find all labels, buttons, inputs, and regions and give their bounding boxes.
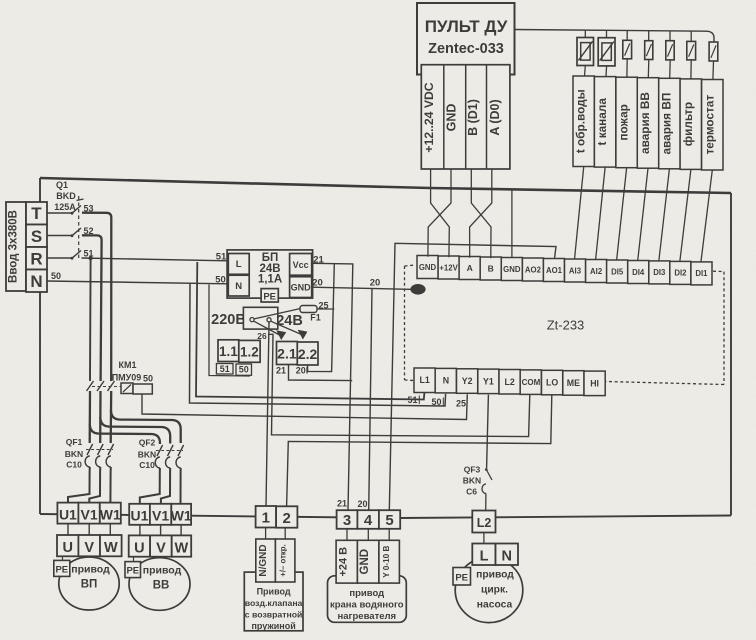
controller terminal N bottom row pin 2 (435, 368, 456, 393)
controller terminal AI2 top row pin 9 (586, 260, 607, 283)
wire QF2 pole3 to W1 (180, 473, 182, 504)
sensor label column термостат (702, 80, 723, 171)
controller terminal Y2 bottom row pin 3 (457, 369, 478, 394)
breaker QF1 pole 3 (108, 444, 114, 455)
controller Zt-233 dashed outline right (713, 270, 724, 272)
contactor KM1 coil (121, 383, 133, 394)
wire QF1 pole3 to W1 (109, 472, 111, 503)
pump motor circle (455, 557, 523, 622)
terminal row U V W motor2 (129, 535, 150, 556)
terminal 3 (337, 510, 358, 529)
wire stub terminal 3 (346, 529, 348, 541)
controller terminal A top row pin 3 (459, 257, 480, 280)
wire COM branch (269, 334, 530, 436)
terminal L pump (472, 544, 495, 566)
sensor t kanala (thermistor) (598, 38, 615, 66)
terminal PE of BP (261, 289, 278, 302)
wire phase T below KM1 (110, 391, 113, 443)
terminal R (26, 247, 47, 270)
controller terminal LO bottom row pin 7 (542, 370, 563, 395)
terminal row U1 V1 W1 motor1 (57, 503, 78, 524)
wire stub pozhar (626, 59, 628, 78)
wire stub L2 to L (483, 533, 485, 544)
controller terminal +12V top row pin 2 (438, 256, 459, 279)
wire QF2 pole2 to V1 (161, 473, 170, 504)
wire sensor to DI3 (659, 169, 670, 261)
contactor KM1 contacts (87, 381, 94, 391)
terminal 2 (276, 506, 297, 527)
terminal 1 (256, 506, 277, 528)
wire 50 (47, 281, 227, 284)
terminal Vcc of BP (290, 254, 312, 276)
relay contact pivot 2 (267, 318, 271, 322)
controller terminal DI2 top row pin 13 (670, 261, 691, 284)
terminal T (26, 202, 47, 225)
controller terminal Y1 bottom row pin 4 (478, 369, 499, 394)
sensor filtr stub (690, 31, 692, 41)
wire stub termostat (712, 61, 715, 80)
damper N/GND column (256, 539, 276, 582)
controller terminal L1 bottom row pin 1 (414, 368, 435, 393)
terminal 1.2 (239, 340, 260, 362)
wire +12V with crossover (431, 169, 450, 257)
sensor avariya VV stub (648, 31, 650, 41)
relay box (243, 307, 277, 329)
switch Q1 pole R (47, 257, 72, 259)
wire sensor to DI1 (701, 170, 712, 262)
sensor pozhar stub (626, 31, 628, 41)
controller terminal B top row pin 4 (480, 257, 501, 280)
wire phase S below KM1 (99, 391, 102, 443)
ground PE motor2 (133, 557, 135, 562)
wire QF1 pole2 to V1 (89, 472, 100, 503)
breaker QF2 pole 3 (178, 445, 184, 456)
controller terminal DI3 top row pin 12 (649, 261, 670, 284)
breaker QF2 linkage (156, 450, 183, 452)
wire F1 to 24V loop (317, 308, 334, 310)
wire 21 from 2.1 (289, 365, 353, 381)
fuse F1 (300, 306, 317, 313)
wire stub filtr (690, 60, 692, 79)
wire 51 drop to L1 (196, 262, 424, 400)
node dot at controller GND (410, 284, 425, 295)
wire relay to terminal 1 (266, 322, 269, 506)
sensor label column t обр.воды (573, 76, 594, 167)
breaker QF2 pole 2 (168, 445, 174, 456)
wire frame right (730, 193, 732, 516)
wire A D0 with crossover (470, 169, 492, 258)
ground PE motor1 (62, 556, 64, 560)
terminal N pump (496, 544, 519, 566)
sensor termostat (contact) (709, 42, 718, 61)
breaker QF1 pole 2 (98, 444, 104, 455)
controller Zt-233 dashed outline left (404, 266, 406, 380)
wire LO to terminal 2 (287, 395, 552, 506)
sensor avariya VP (contact) (666, 41, 674, 60)
wire sensor bus (515, 30, 715, 43)
sensor t kanala stub (606, 30, 608, 37)
sensor t obr.vody (thermistor) (577, 38, 594, 66)
input label Ввод 3х380В (6, 202, 26, 291)
wire 52 (82, 235, 102, 381)
wire QF2 pole1 to U1 (140, 473, 160, 504)
sensor avariya VV (contact) (645, 41, 653, 60)
wire phase S branch to QF2 (100, 417, 170, 444)
controller terminal AO2 top row pin 6 (522, 258, 543, 281)
wire QF1 pole1 to U1 (68, 472, 90, 503)
wire sensor to AI2 (596, 168, 606, 260)
controller terminal DI4 top row pin 11 (628, 261, 649, 284)
wire 51 (82, 258, 228, 261)
controller terminal GND top row pin 5 (501, 258, 522, 281)
wire 50 drop to tag (209, 285, 250, 377)
arrow to 2.2 (298, 330, 308, 340)
damper actuator outer box (244, 572, 303, 631)
wire frame top (40, 178, 731, 193)
remote panel terminal columns (421, 65, 510, 169)
wire stub terminal 2 (284, 528, 286, 539)
wire sensor to DI5 (617, 168, 627, 260)
switch Q1 pole T (47, 212, 72, 214)
sensor pozhar (contact) (623, 40, 632, 59)
tag 50 under 1.2 (236, 364, 252, 375)
node junction 51 (89, 256, 93, 260)
damper +/- otkr column (275, 539, 295, 582)
terminal 1.1 (218, 340, 239, 362)
wire AO1 to terminal 5 (389, 243, 556, 510)
wire sensor to AI3 (575, 167, 584, 259)
wire frame bottom (40, 514, 731, 518)
controller terminal COM bottom row pin 6 (520, 370, 541, 395)
relay blade to 2.2 (271, 321, 302, 334)
controller terminal AI3 top row pin 8 (565, 259, 586, 282)
wire Y1 to QF3 (487, 395, 489, 468)
wire stub terminal 4 (367, 529, 369, 541)
valve GND column (357, 540, 379, 583)
wire 20 drop to terminal 4 (369, 289, 372, 511)
sensor avariya VP stub (669, 31, 671, 41)
switch Q1 linkage (78, 196, 80, 258)
controller terminal AO1 top row pin 7 (543, 259, 564, 282)
wire 51 drop to KM1 (89, 258, 92, 381)
controller terminal GND top row pin 1 (417, 256, 438, 279)
wire KM1 coil to Y2 (142, 394, 467, 420)
switch Q1 pole S (47, 235, 72, 237)
remote panel Zentec-033 box (417, 3, 515, 75)
terminal 2.1 (277, 342, 298, 365)
wire 21 Vcc to terminal 3 (312, 263, 353, 510)
controller terminal DI1 top row pin 14 (691, 262, 712, 285)
wire phase R below KM1 (89, 391, 92, 443)
sensor label column авария ВВ (637, 78, 658, 169)
motor M2 circle (129, 558, 190, 611)
relay blade to F1 (254, 309, 300, 319)
terminal 2.2 (297, 342, 318, 365)
motor M1 circle (59, 557, 119, 610)
arrow to 2.1 (276, 330, 286, 340)
terminal GND of BP (290, 277, 312, 298)
terminal row U V W motor1 (57, 535, 78, 556)
wire stub terminal 1 (265, 528, 267, 540)
wire stubs U1-U V1-V W1-W motor2 (139, 525, 141, 536)
wire GND with crossover (428, 169, 451, 257)
breaker QF1 linkage (86, 449, 113, 451)
controller terminal L2 bottom row pin 5 (499, 370, 520, 395)
sensor label column t канала (594, 77, 615, 168)
relay blade to 2.1 (254, 321, 280, 335)
tag 51 under 1.1 (216, 364, 233, 375)
controller terminal HI bottom row pin 9 (584, 371, 605, 396)
heater valve outer box (328, 576, 407, 623)
wire 53 (82, 213, 111, 381)
wire 24V to F1 loop (308, 264, 335, 372)
wire frame to GND pin5 (511, 190, 513, 258)
terminal N (26, 270, 47, 293)
power supply BP body (227, 250, 313, 298)
wire stub terminal 5 (388, 529, 390, 541)
wire stub avariya VP (669, 60, 672, 79)
breaker QF2 pole 1 (157, 445, 163, 456)
wire stub t obr.vody (584, 66, 587, 77)
wire stub t kanala (605, 66, 608, 77)
sensor label column фильтр (680, 79, 701, 169)
wire B D1 with crossover (471, 169, 491, 258)
terminal row U1 V1 W1 motor2 (129, 504, 150, 525)
breaker QF3 contact (485, 468, 488, 471)
sensor label column авария ВП (659, 78, 680, 169)
sensor label column пожар (616, 77, 637, 168)
terminal L2 pump (472, 511, 495, 533)
wire sensor to DI2 (680, 169, 691, 261)
terminal 5 (379, 510, 400, 529)
terminal S (26, 225, 47, 248)
wire 50 drop to N (190, 284, 446, 407)
wire frame left (39, 178, 41, 514)
wire phase R branch to QF2 (90, 424, 160, 444)
wire stubs U1-U V1-V W1-W motor1 (67, 524, 69, 535)
controller terminal DI5 top row pin 10 (607, 260, 628, 283)
valve Y 0-10V column (379, 540, 400, 583)
relay contact pivot 1 (250, 318, 254, 322)
wire 20 GND to controller (312, 287, 415, 289)
valve +24V column (336, 540, 357, 583)
terminal N of BP (228, 275, 249, 296)
wire phase T branch to QF2 (111, 410, 181, 443)
terminal L of BP (228, 254, 249, 275)
sensor t obr.vody stub (584, 30, 586, 37)
controller terminal ME bottom row pin 8 (563, 371, 584, 396)
wire sensor to DI4 (638, 168, 648, 260)
terminal 4 (357, 510, 379, 529)
breaker QF1 pole 1 (87, 444, 93, 455)
sensor filtr (contact) (687, 41, 696, 60)
wire stub avariya VV (647, 60, 650, 79)
ground PE pump (453, 568, 471, 586)
